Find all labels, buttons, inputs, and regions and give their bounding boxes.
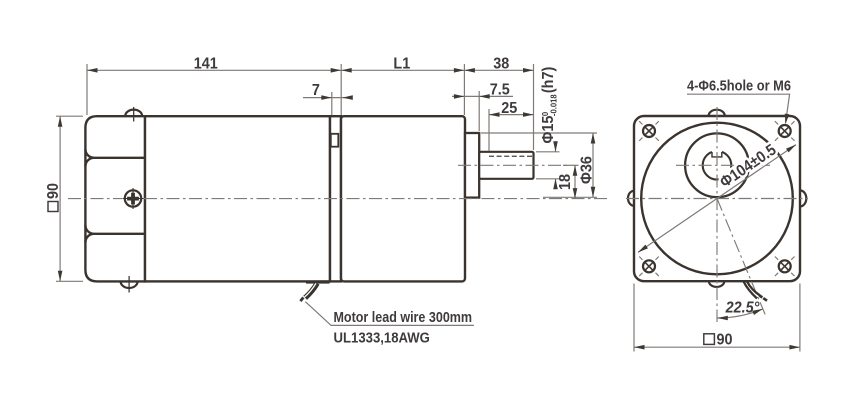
svg-text:-0.018: -0.018 [549, 94, 558, 116]
svg-text:90: 90 [45, 183, 63, 199]
svg-text:22.5°: 22.5° [725, 299, 761, 317]
svg-text:4-Φ6.5hole or M6: 4-Φ6.5hole or M6 [687, 76, 791, 93]
svg-text:UL1333,18AWG: UL1333,18AWG [334, 330, 430, 347]
svg-text:25: 25 [501, 99, 518, 117]
svg-text:141: 141 [194, 55, 219, 73]
svg-text:L1: L1 [393, 55, 410, 73]
svg-text:Motor lead wire 300mm: Motor lead wire 300mm [334, 308, 473, 325]
svg-text:Φ15: Φ15 [539, 115, 557, 143]
svg-text:7: 7 [312, 81, 320, 99]
svg-text:18: 18 [556, 174, 574, 190]
svg-text:(h7): (h7) [539, 67, 557, 93]
svg-text:Φ36: Φ36 [578, 156, 596, 184]
svg-text:38: 38 [493, 55, 509, 73]
svg-text:90: 90 [717, 331, 733, 349]
svg-text:7.5: 7.5 [490, 81, 511, 99]
